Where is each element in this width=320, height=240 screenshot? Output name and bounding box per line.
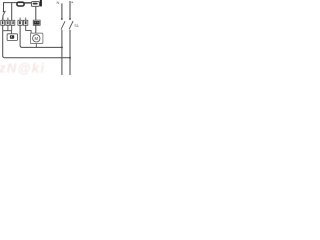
wire top horizontal	[3, 2, 31, 4]
motor M1 circle	[33, 35, 40, 42]
L switch contact	[69, 18, 71, 20]
terminal 2 label	[7, 21, 8, 24]
switch Q0 upper segment	[3, 2, 5, 11]
box K (component with dark label)	[7, 34, 17, 41]
wire terminal 4 down and right to N rail	[20, 25, 62, 47]
stub below terminal 2	[7, 25, 9, 30]
wire F2 to terminal 6	[35, 6, 37, 20]
junction dot L	[69, 57, 71, 59]
motor stub down	[35, 44, 37, 48]
N rail upper	[61, 3, 63, 18]
junction dot N	[61, 46, 63, 48]
L switch lever	[69, 21, 73, 29]
L rail lower	[69, 30, 71, 75]
terminal 4 label	[19, 21, 21, 24]
wire left rail down and right to L rail	[3, 31, 70, 58]
terminal 1	[1, 20, 5, 25]
switch Q0 lower segment	[2, 16, 4, 21]
terminal 4	[18, 20, 22, 25]
terminal 5 stub	[25, 18, 27, 21]
N switch lever	[61, 21, 65, 29]
terminal 1 stub	[2, 18, 4, 21]
connector bar (dark)	[40, 0, 42, 6]
stub below terminal 5 to motor box	[26, 25, 31, 33]
terminal 1 label	[2, 21, 3, 24]
N switch contact	[61, 18, 63, 20]
terminal 5 label	[25, 21, 27, 24]
svg-text:N: N	[57, 0, 60, 5]
terminal 6 speckles	[35, 22, 36, 23]
svg-text:S1: S1	[74, 24, 79, 28]
bus joining terminals 1-3	[3, 30, 12, 32]
svg-text:zN@ki: zN@ki	[0, 61, 44, 76]
switch Q0 lever	[3, 11, 6, 16]
terminal 2 stub	[7, 18, 9, 21]
switch Q0 contact	[3, 11, 5, 13]
terminal 4 stub	[19, 18, 21, 21]
terminal 3	[11, 20, 15, 25]
stub below terminal 1	[2, 25, 4, 30]
wire between fuses	[24, 2, 31, 4]
terminal 3 label	[12, 21, 13, 24]
background	[0, 0, 80, 75]
N rail lower	[61, 30, 63, 75]
fuse F1 (thick bordered box)	[17, 2, 24, 6]
terminal 5	[23, 20, 27, 25]
terminal 6 (dark PE block)	[33, 20, 40, 25]
label L (partial)	[71, 2, 73, 3]
svg-text:M: M	[35, 36, 39, 41]
fuse F2 element	[33, 3, 38, 5]
feed into box K	[10, 31, 12, 34]
box K label	[10, 35, 14, 38]
L rail upper	[69, 1, 71, 19]
motor box U	[30, 33, 43, 44]
stub below terminal 3	[11, 25, 13, 30]
wire terminal 6 down to motor	[35, 25, 37, 33]
fuse F2 box	[31, 2, 39, 7]
terminal 2	[6, 20, 10, 25]
wire drop to terminal 3	[11, 2, 13, 20]
